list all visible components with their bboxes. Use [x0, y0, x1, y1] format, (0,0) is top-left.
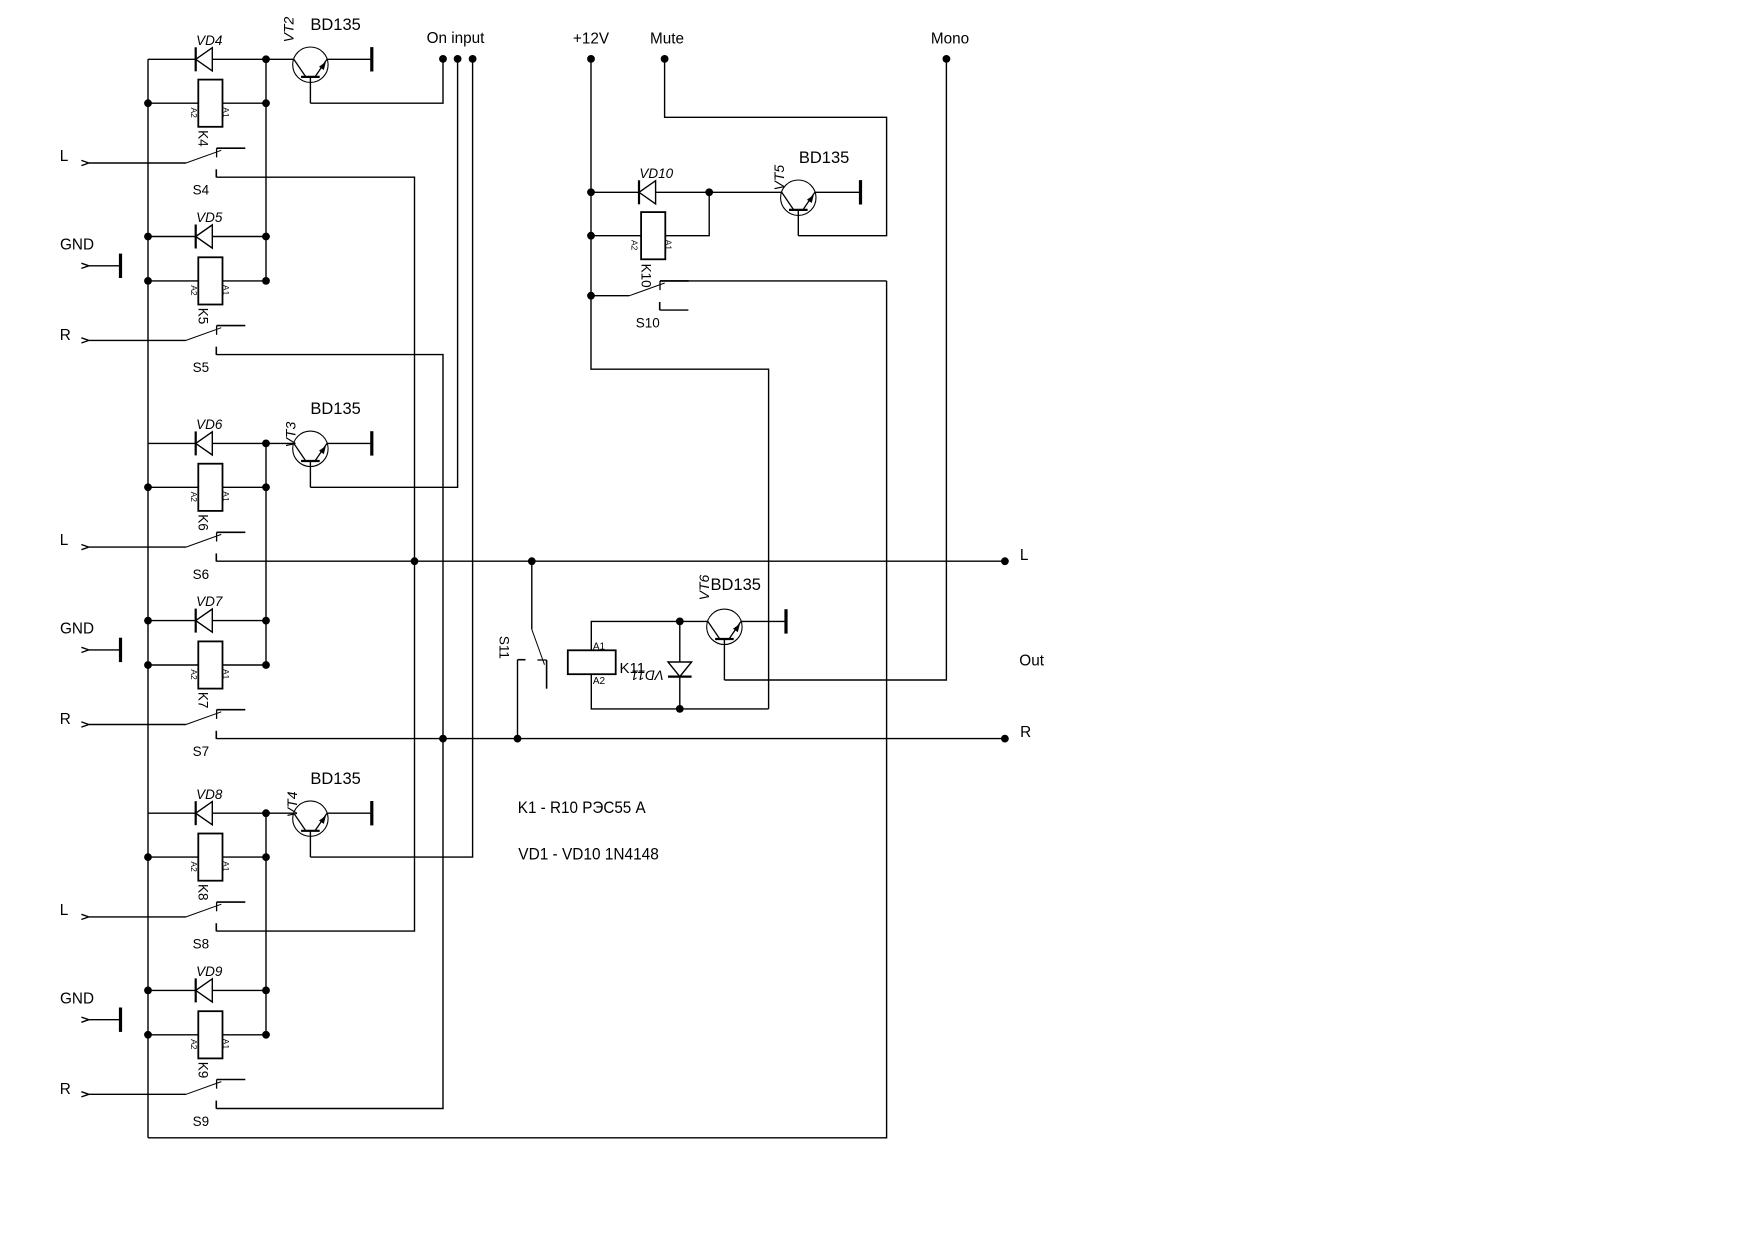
wire VT2 base to On input 1: [310, 59, 443, 103]
wire VT4 emitter to terminal: [327, 812, 372, 814]
wire GND input (block 3): [89, 1019, 121, 1021]
wire GND input (block 2): [89, 649, 121, 651]
svg-text:Mute: Mute: [650, 30, 684, 47]
svg-text:A1: A1: [593, 642, 606, 653]
svg-text:BD135: BD135: [310, 400, 360, 418]
wire K4 A1 to rail: [223, 102, 267, 104]
junction left rail K8: [144, 853, 152, 861]
svg-text:VD11: VD11: [631, 668, 664, 683]
connector L input (block 2): [81, 545, 88, 550]
svg-text:S9: S9: [193, 1114, 210, 1129]
node Mono: [943, 55, 951, 63]
svg-text:Out: Out: [1019, 652, 1044, 669]
junction left rail K7: [144, 661, 152, 669]
wire VD10 to VT5 collector: [656, 191, 782, 193]
relay contact S8: [186, 902, 245, 931]
transistor VT6: [707, 609, 742, 644]
wire S9 output to R-join: [216, 739, 443, 1109]
wire L input to S-contact (block 3): [89, 916, 186, 918]
wire L bus to S11: [531, 561, 533, 629]
svg-text:L: L: [60, 902, 69, 919]
node +12V: [587, 55, 595, 63]
wire GND input (block 1): [89, 265, 121, 267]
svg-text:BD135: BD135: [310, 16, 360, 34]
wire K7 A1 to rail: [223, 664, 267, 666]
svg-text:R: R: [60, 711, 71, 728]
relay contact S9: [186, 1080, 245, 1109]
svg-text:A1: A1: [664, 240, 674, 251]
svg-text:K7: K7: [196, 692, 211, 709]
svg-text:R: R: [60, 1081, 71, 1098]
wire VT4 base lead: [309, 831, 311, 857]
node On input 2: [454, 55, 462, 63]
relay contact S7: [186, 710, 245, 739]
svg-text:GND: GND: [60, 621, 94, 638]
diode VD7: [196, 609, 213, 633]
wire bottom rail to S10 contact: [148, 281, 887, 1138]
diode VD6: [196, 431, 213, 455]
wire VD9 to rail: [212, 989, 266, 991]
svg-text:S8: S8: [193, 937, 210, 952]
svg-text:S11: S11: [497, 636, 512, 659]
svg-text:A1: A1: [221, 1039, 231, 1050]
svg-text:S5: S5: [193, 360, 210, 375]
svg-text:BD135: BD135: [711, 576, 761, 594]
junction right rail VD7: [262, 617, 270, 625]
junction right rail K7: [262, 661, 270, 669]
svg-text:A2: A2: [189, 861, 199, 872]
junction left rail K9: [144, 1031, 152, 1039]
wire VT3 emitter to terminal: [327, 442, 372, 444]
wire L input to S-contact (block 1): [89, 162, 186, 164]
svg-text:A1: A1: [221, 669, 231, 680]
wire VT2 base lead: [309, 77, 311, 103]
junction right rail K6: [262, 483, 270, 491]
svg-text:K4: K4: [196, 130, 211, 147]
relay contact S6: [186, 532, 245, 561]
wire R input to S-contact (block 3): [89, 1093, 186, 1095]
svg-text:A1: A1: [221, 285, 231, 296]
wire K6 A1 to rail: [223, 486, 267, 488]
diode VD5: [196, 225, 213, 249]
junction VD8 right: [262, 809, 270, 817]
svg-text:VD10: VD10: [639, 166, 673, 181]
svg-text:K10: K10: [638, 264, 653, 288]
wire R input to S-contact (block 1): [89, 339, 186, 341]
junction L bus / S11: [528, 557, 536, 565]
svg-text:S7: S7: [193, 744, 210, 759]
relay K11: [568, 650, 616, 674]
junction VD6 right: [262, 440, 270, 448]
wire VT2 emitter to terminal: [327, 58, 372, 60]
wire rail to VD7: [148, 620, 196, 622]
svg-text:VT5: VT5: [771, 165, 787, 191]
junction left rail K4: [144, 99, 152, 107]
wire K11 A1 to VT6 collector: [591, 621, 708, 650]
svg-text:S6: S6: [193, 567, 210, 582]
svg-text:A1: A1: [221, 861, 231, 872]
wire L input to S-contact (block 2): [89, 546, 186, 548]
junction left rail VD7: [144, 617, 152, 625]
connector R input (block 1): [81, 338, 88, 343]
wire K9 A1 to rail: [223, 1034, 267, 1036]
svg-text:A2: A2: [593, 676, 606, 687]
connector R input (block 3): [81, 1092, 88, 1097]
relay K8: [198, 834, 222, 881]
wire +12V to S10: [591, 295, 629, 297]
wire rail to K7 A2: [148, 664, 198, 666]
wire +12V to VD10: [591, 191, 639, 193]
wire VT6 base lead: [723, 639, 725, 680]
wire VT6 emitter to terminal: [741, 620, 786, 622]
wire rail to VD5: [148, 236, 196, 238]
junction right rail VD5: [262, 233, 270, 241]
svg-text:VD7: VD7: [196, 594, 223, 609]
junction VD11 anode: [676, 618, 684, 626]
diode VD11: [668, 662, 692, 677]
svg-text:VD4: VD4: [196, 33, 222, 48]
connector GND input (block 3): [81, 1017, 88, 1022]
diode VD9: [196, 978, 213, 1002]
svg-text:L: L: [60, 532, 69, 549]
junction left rail K6: [144, 483, 152, 491]
junction right rail K8: [262, 853, 270, 861]
junction VD4 right: [262, 55, 270, 63]
svg-text:On input: On input: [427, 30, 486, 47]
svg-text:A2: A2: [189, 1039, 199, 1050]
svg-text:A2: A2: [189, 108, 199, 119]
wire K11 A2 to +12V drop: [591, 674, 768, 709]
node Mute: [661, 55, 669, 63]
junction VD10 / K10 A1: [705, 188, 713, 196]
wire VD11 leads: [679, 621, 681, 709]
wire VT3 base lead: [309, 461, 311, 487]
terminal VT5 emitter: [859, 180, 862, 204]
svg-text:VT3: VT3: [283, 422, 299, 448]
relay K7: [198, 641, 222, 688]
junction left rail VD9: [144, 987, 152, 995]
svg-text:VT4: VT4: [284, 791, 300, 817]
svg-text:K1 - R10 РЭС55 А: K1 - R10 РЭС55 А: [518, 798, 646, 817]
svg-text:VT2: VT2: [281, 17, 297, 43]
junction left rail VD5: [144, 233, 152, 241]
wire rail to VD4: [148, 58, 196, 60]
svg-text:A2: A2: [189, 669, 199, 680]
relay K4: [198, 80, 222, 127]
wire S5 output to R-join: [216, 355, 443, 739]
svg-text:Mono: Mono: [931, 30, 969, 47]
junction +12V / K10: [587, 232, 595, 240]
relay K5: [198, 257, 222, 304]
wire S11 to R bus: [517, 660, 519, 739]
wire rail to K6 A2: [148, 486, 198, 488]
connector R input (block 2): [81, 722, 88, 727]
svg-text:+12V: +12V: [573, 30, 610, 47]
ground terminal (block 3): [119, 1008, 122, 1032]
wire rail to VD8: [148, 812, 196, 814]
svg-text:A2: A2: [630, 240, 640, 251]
svg-text:A1: A1: [221, 107, 231, 118]
relay K6: [198, 464, 222, 511]
wire VD8 to VT4 collector: [212, 812, 293, 814]
wire R output bus: [216, 738, 1005, 740]
terminal VT6 emitter: [784, 609, 787, 633]
junction +12V / VD10: [587, 188, 595, 196]
wire K10 A1 elbow: [665, 192, 709, 235]
relay K9: [198, 1011, 222, 1058]
transistor VT5: [781, 180, 816, 215]
transistor VT2: [293, 47, 328, 82]
junction VD11 cathode: [676, 705, 684, 713]
terminal VT2 emitter: [370, 47, 373, 71]
wire VD6 to VT3 collector: [212, 442, 293, 444]
node R output: [1001, 735, 1009, 743]
svg-text:VD6: VD6: [196, 417, 223, 432]
node L output: [1001, 557, 1009, 565]
svg-text:L: L: [1020, 547, 1029, 564]
svg-text:R: R: [60, 327, 71, 344]
wire rail to VD9: [148, 989, 196, 991]
junction R bus / S11: [514, 735, 522, 743]
junction right rail K4: [262, 99, 270, 107]
junction +12V / S10: [587, 292, 595, 300]
svg-text:K6: K6: [196, 514, 211, 531]
wire S8 output to L-join: [216, 561, 414, 931]
wire rail to K8 A2: [148, 856, 198, 858]
wire VT5 emitter to terminal: [815, 191, 861, 193]
junction R bus / S5-S9 join: [439, 735, 447, 743]
relay K10: [641, 212, 665, 259]
wire VD7 to rail: [212, 620, 266, 622]
wire block-1 right rail: [265, 59, 267, 281]
connector L input (block 1): [81, 160, 88, 165]
transistor VT3: [293, 431, 328, 466]
terminal VT3 emitter: [370, 431, 373, 455]
diode VD8: [196, 801, 213, 825]
svg-text:A2: A2: [189, 285, 199, 296]
relay contact S4: [186, 148, 245, 177]
transistor VT4: [293, 801, 328, 836]
wire VT4 base to On input 3: [310, 59, 472, 857]
junction right rail K5: [262, 277, 270, 285]
junction L bus / S4-S8 join: [411, 557, 419, 565]
wire S10 NC stub: [660, 309, 689, 311]
ground terminal (block 1): [119, 254, 122, 278]
svg-text:BD135: BD135: [310, 770, 360, 788]
connector L input (block 3): [81, 914, 88, 919]
svg-text:A1: A1: [221, 491, 231, 502]
wire VD5 to rail: [212, 236, 266, 238]
diode VD10: [639, 180, 656, 204]
node On input 3: [469, 55, 477, 63]
svg-text:K8: K8: [196, 884, 211, 901]
wire VD4 to VT2 collector: [212, 58, 293, 60]
wire left relay-common rail: [147, 59, 149, 1138]
relay contact S5: [186, 326, 245, 355]
wire R input to S-contact (block 2): [89, 724, 186, 726]
connector GND input (block 2): [81, 647, 88, 652]
node On input 1: [439, 55, 447, 63]
relay contact S10: [629, 281, 688, 310]
wire block-3 right rail: [265, 813, 267, 1035]
svg-text:A2: A2: [189, 492, 199, 503]
svg-text:S10: S10: [636, 316, 660, 331]
wire rail to VD6: [148, 442, 196, 444]
connector GND input (block 1): [81, 263, 88, 268]
relay contact S11: [518, 629, 547, 688]
wire S4 output to L-join: [216, 177, 414, 561]
svg-text:GND: GND: [60, 236, 94, 253]
wire L output bus: [216, 560, 1005, 562]
svg-text:VD9: VD9: [196, 964, 223, 979]
terminal VT4 emitter: [370, 801, 373, 825]
wire rail to K9 A2: [148, 1034, 198, 1036]
diode VD4: [196, 47, 213, 71]
junction right rail K9: [262, 1031, 270, 1039]
wire K8 A1 to rail: [223, 856, 267, 858]
wire Mono to VT6 base: [724, 59, 946, 680]
wire VT3 base to On input 2: [310, 59, 457, 487]
svg-text:VD1 - VD10 1N4148: VD1 - VD10 1N4148: [518, 845, 659, 864]
wire VT5 base lead: [797, 210, 799, 236]
svg-text:BD135: BD135: [799, 149, 849, 167]
wire K5 A1 to rail: [223, 280, 267, 282]
wire rail to K4 A2: [148, 102, 198, 104]
wire +12V rail: [591, 59, 769, 709]
svg-text:GND: GND: [60, 990, 94, 1007]
svg-text:R: R: [1020, 724, 1031, 741]
svg-text:L: L: [60, 148, 69, 165]
junction left rail K5: [144, 277, 152, 285]
wire block-2 right rail: [265, 443, 267, 665]
svg-text:VD8: VD8: [196, 787, 223, 802]
svg-text:K9: K9: [196, 1062, 211, 1079]
wire rail to K5 A2: [148, 280, 198, 282]
ground terminal (block 2): [119, 638, 122, 662]
wire Mute to VT5 base: [665, 59, 887, 236]
wire K10 A2: [591, 235, 641, 237]
svg-text:VD5: VD5: [196, 210, 223, 225]
svg-text:S4: S4: [193, 183, 210, 198]
wire S10 NO contact line: [660, 280, 887, 282]
junction right rail VD9: [262, 987, 270, 995]
svg-text:K5: K5: [196, 308, 211, 325]
